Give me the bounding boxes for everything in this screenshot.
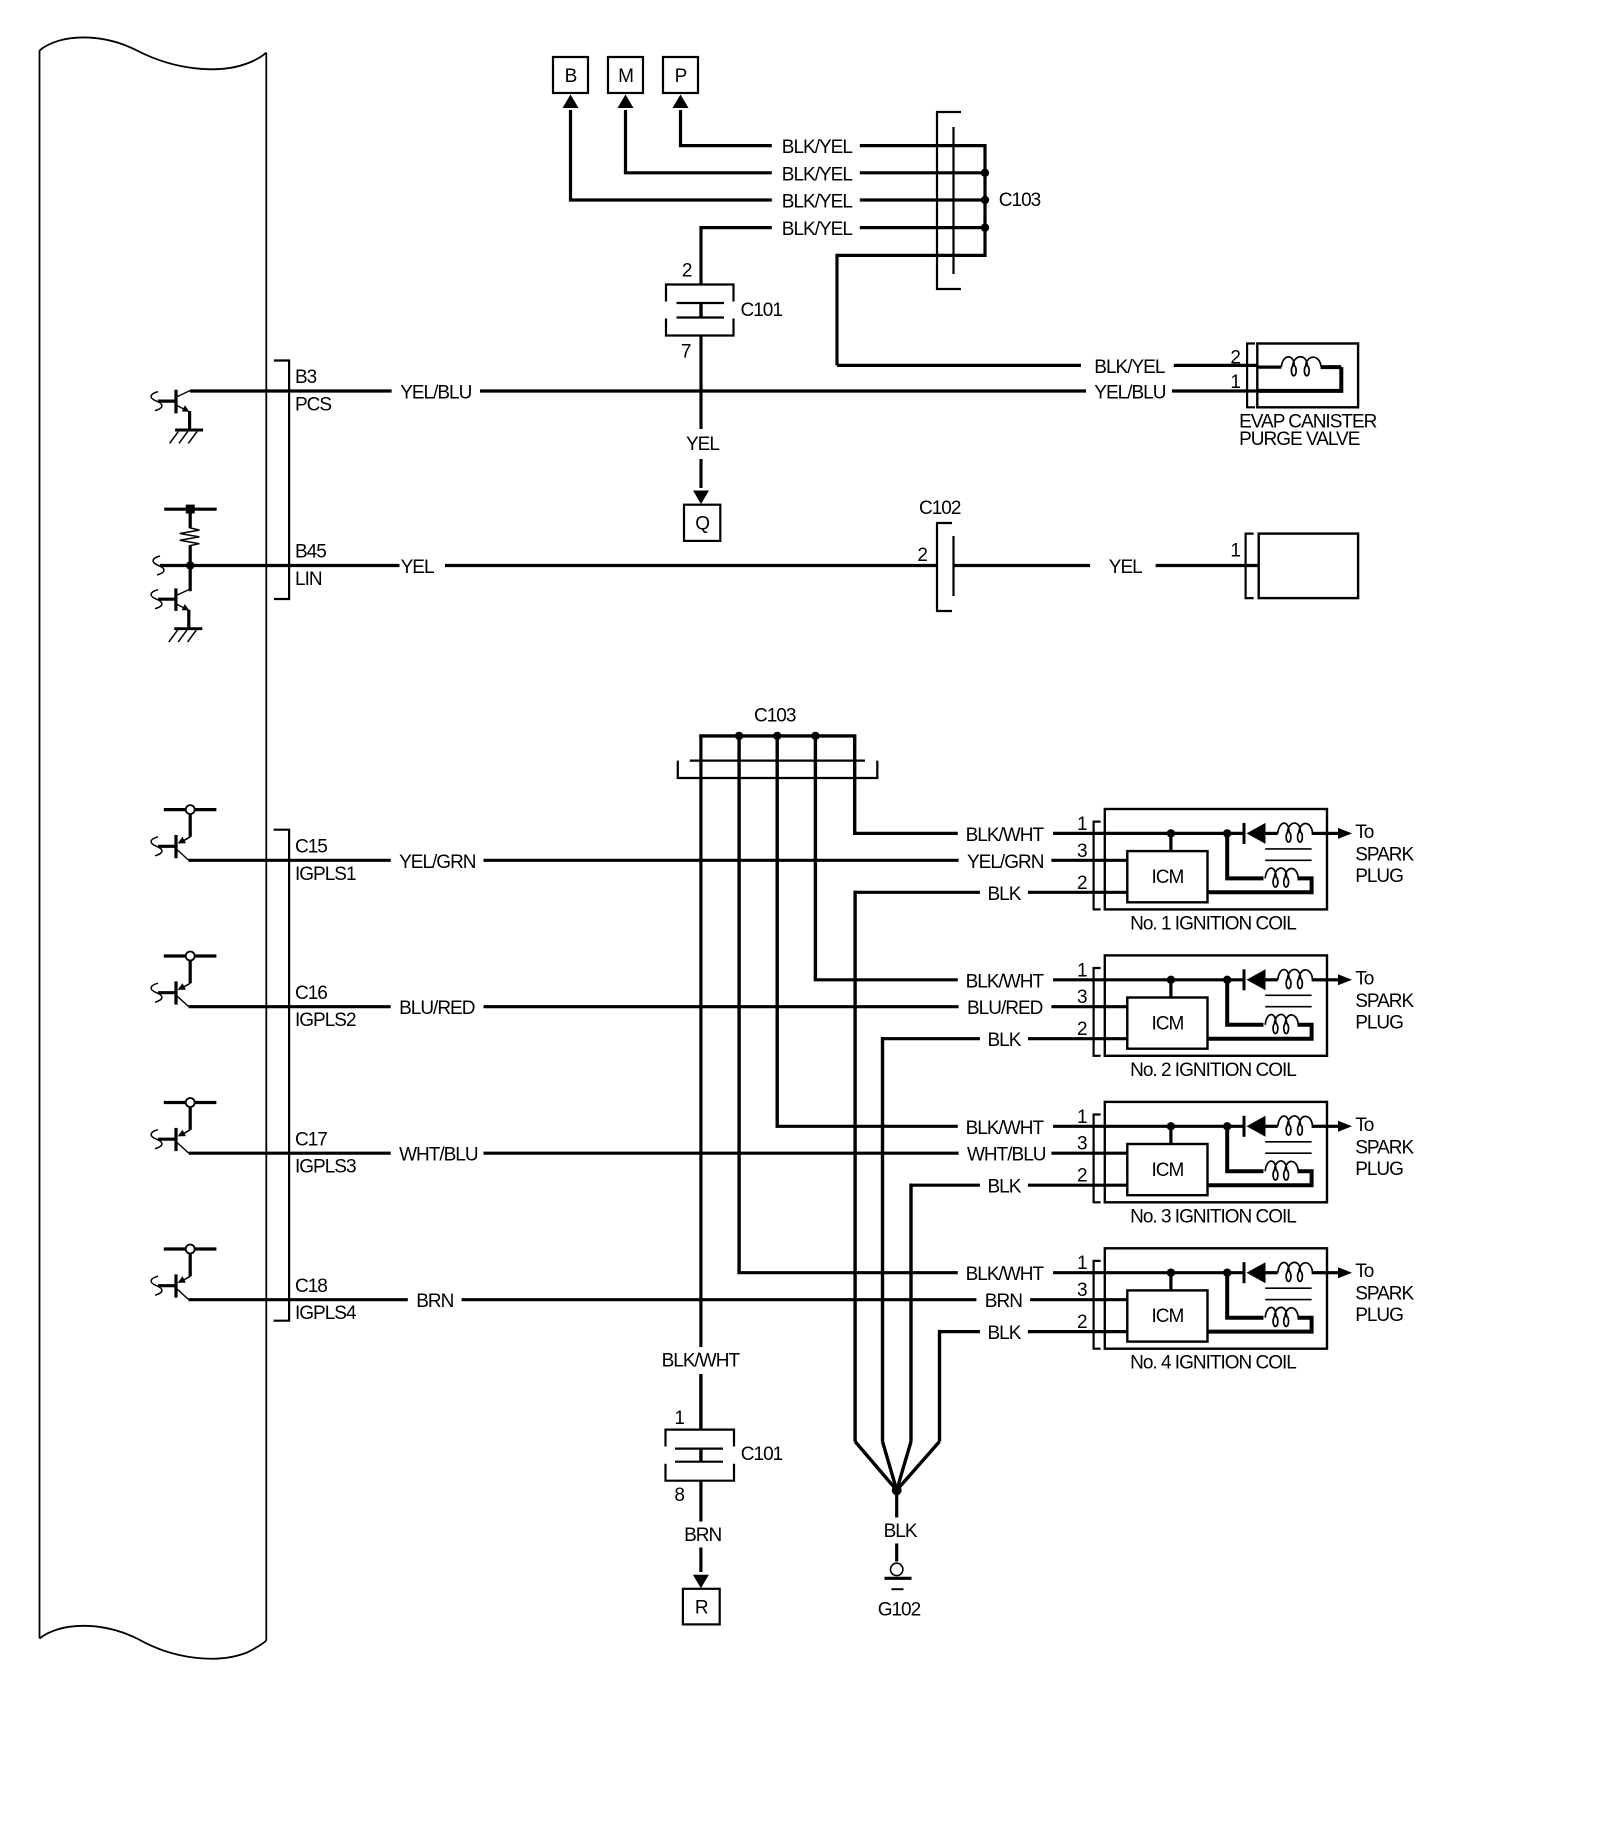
svg-text:YEL/GRN: YEL/GRN — [967, 852, 1044, 873]
svg-text:2: 2 — [682, 261, 692, 282]
label BRN (right) — [985, 1291, 1022, 1312]
svg-text:C103: C103 — [999, 190, 1041, 211]
label BLK/WHT coil 3 — [966, 1118, 1045, 1139]
pin number 1 coil 2 — [1077, 960, 1087, 981]
svg-text:C102: C102 — [919, 498, 961, 519]
label BLK coil 3 — [988, 1177, 1022, 1198]
svg-text:WHT/BLU: WHT/BLU — [399, 1145, 478, 1166]
pin label IGPLS1 — [295, 864, 356, 885]
pin number 3 coil 2 — [1077, 987, 1087, 1008]
wire BLK/YEL row 2 — [624, 171, 985, 174]
ICM box coil 2 — [1127, 998, 1207, 1049]
connector C101 (top) body — [666, 285, 734, 336]
transformer core coil 3 — [1265, 1142, 1311, 1153]
svg-text:1: 1 — [1077, 814, 1087, 835]
pin label LIN — [295, 569, 322, 590]
svg-text:R: R — [695, 1597, 708, 1618]
label BLK/WHT coil 4 — [966, 1264, 1045, 1285]
svg-text:SPARK: SPARK — [1355, 1284, 1414, 1305]
ignition coil 4 box — [1105, 1248, 1327, 1348]
pin label PCS — [295, 395, 331, 416]
ICM box coil 3 — [1127, 1144, 1207, 1195]
terminal box R — [683, 1589, 720, 1625]
svg-text:ICM: ICM — [1151, 1160, 1183, 1181]
svg-text:To: To — [1355, 822, 1374, 843]
pin label C15 — [295, 837, 327, 858]
svg-text:3: 3 — [1077, 1280, 1087, 1301]
ground symbol G102 — [885, 1563, 912, 1589]
ignition coil 2 box — [1105, 955, 1327, 1055]
pin number 2 coil 2 — [1077, 1019, 1087, 1040]
svg-text:1: 1 — [1230, 541, 1240, 562]
pin label IGPLS3 — [295, 1157, 356, 1178]
junction dot bus row 2 — [981, 169, 989, 177]
wire BLK coil 3 down to G102 — [897, 1184, 911, 1491]
svg-text:No. 3 IGNITION COIL: No. 3 IGNITION COIL — [1130, 1206, 1296, 1227]
label BLK coil 4 — [988, 1323, 1022, 1344]
spark plug output arrow coil 1 — [1327, 828, 1352, 839]
connector C103 (lower) outer bracket — [678, 761, 878, 778]
junction dot coil 2 pin1-ICM — [1167, 976, 1175, 998]
svg-text:PLUG: PLUG — [1355, 1012, 1403, 1033]
transformer core coil 1 — [1265, 849, 1311, 860]
svg-text:No. 4 IGNITION COIL: No. 4 IGNITION COIL — [1130, 1353, 1296, 1374]
svg-text:BLK: BLK — [988, 1177, 1022, 1198]
svg-text:BRN: BRN — [985, 1291, 1022, 1312]
label BLK/YEL row 2 — [782, 164, 853, 185]
ground (PCS emitter) — [170, 430, 204, 443]
svg-text:C17: C17 — [295, 1129, 327, 1150]
wire BLK/WHT into coil 3 pin 1 — [776, 1125, 1245, 1128]
svg-text:C15: C15 — [295, 837, 327, 858]
svg-text:B3: B3 — [295, 367, 317, 388]
pin number 3 coil 1 — [1077, 841, 1087, 862]
wire BLK coil 1 down to G102 — [855, 891, 897, 1491]
svg-text:BLK/YEL: BLK/YEL — [782, 219, 853, 240]
svg-text:BLK: BLK — [988, 1030, 1022, 1051]
pin 2 label C102 — [917, 545, 927, 566]
purge valve internal return wire — [1257, 367, 1341, 391]
transistor IGPLS3 driver — [151, 1098, 216, 1153]
svg-text:BRN: BRN — [416, 1291, 453, 1312]
svg-text:M: M — [618, 66, 633, 87]
svg-text:C18: C18 — [295, 1276, 327, 1297]
svg-text:BLU/RED: BLU/RED — [967, 998, 1043, 1019]
pin 1 label purge valve — [1230, 372, 1240, 393]
junction dot bus row 4 — [981, 223, 989, 231]
svg-text:LIN: LIN — [295, 569, 322, 590]
wire BRN from ECM C18 to ignition coil — [189, 1298, 1128, 1301]
connector bracket coil 1 — [1094, 822, 1101, 910]
connector C103 (top) inner contact line — [952, 127, 954, 274]
diode coil 1 — [1244, 823, 1266, 844]
svg-text:BLK/WHT: BLK/WHT — [966, 1264, 1045, 1285]
label YEL (to Q) — [686, 434, 719, 455]
label WHT/BLU (left) — [399, 1145, 478, 1166]
connector C102 — [937, 523, 954, 611]
wire BLK from coil 1 pin 2 — [855, 891, 1127, 894]
label BLK coil 2 — [988, 1030, 1022, 1051]
primary winding coil 1 — [1266, 823, 1328, 842]
wire YEL/BLU from ECM B3 to purge valve pin 1 — [190, 389, 1257, 392]
wire YEL from C101 pin 7 to Q — [693, 336, 709, 505]
svg-text:No. 1 IGNITION COIL: No. 1 IGNITION COIL — [1130, 913, 1296, 934]
pin label C17 — [295, 1129, 327, 1150]
svg-text:8: 8 — [674, 1485, 684, 1506]
wire BLK coil 4 down to G102 — [897, 1330, 940, 1490]
connector C103 (top) outer bracket — [937, 112, 961, 289]
transistor IGPLS2 driver — [151, 952, 216, 1007]
terminal box M — [608, 57, 643, 93]
svg-text:IGPLS4: IGPLS4 — [295, 1303, 357, 1324]
wire BLK to ground G102 — [895, 1490, 898, 1561]
pin 7 label C101 (top) — [681, 342, 691, 363]
transistor IGPLS1 driver — [151, 805, 216, 860]
svg-text:YEL: YEL — [686, 434, 719, 455]
wire from terminal P with up arrow — [673, 95, 689, 146]
pin 8 label C101 (bottom) — [674, 1485, 684, 1506]
label BLK/WHT coil 2 — [966, 971, 1045, 992]
resistor (B45 pull-up) — [180, 514, 200, 592]
transistor LIN driver — [151, 588, 190, 628]
ICM box coil 1 — [1127, 851, 1207, 902]
svg-text:BRN: BRN — [684, 1525, 721, 1546]
svg-text:BLK: BLK — [884, 1521, 918, 1542]
pin label IGPLS2 — [295, 1010, 356, 1031]
diode coil 2 — [1244, 969, 1266, 990]
label C101 (top) — [741, 300, 783, 321]
svg-text:IGPLS1: IGPLS1 — [295, 864, 356, 885]
junction dot C103 bus x=777.2 — [773, 732, 781, 740]
ignition coil 1 box — [1105, 809, 1327, 909]
wire BLK from coil 2 pin 2 — [883, 1037, 1128, 1040]
pin number 2 coil 4 — [1077, 1312, 1087, 1333]
label WHT/BLU (right) — [967, 1145, 1046, 1166]
transistor IGPLS4 driver — [151, 1245, 216, 1300]
svg-text:SPARK: SPARK — [1355, 991, 1414, 1012]
svg-text:IGPLS2: IGPLS2 — [295, 1010, 356, 1031]
pin label C18 — [295, 1276, 327, 1297]
svg-text:IGPLS3: IGPLS3 — [295, 1157, 356, 1178]
svg-text:2: 2 — [1077, 1166, 1087, 1187]
primary winding coil 2 — [1266, 969, 1328, 988]
connector bracket coil 2 — [1094, 968, 1101, 1056]
svg-text:C16: C16 — [295, 983, 327, 1004]
svg-text:1: 1 — [674, 1408, 684, 1429]
svg-text:B45: B45 — [295, 542, 326, 563]
primary winding coil 3 — [1266, 1116, 1328, 1135]
label C102 — [919, 498, 961, 519]
label YEL/BLU (right) — [1094, 383, 1165, 404]
connector bracket coil 4 — [1094, 1261, 1101, 1349]
secondary return wire coil 2 — [1208, 1025, 1312, 1039]
svg-text:YEL/BLU: YEL/BLU — [400, 383, 471, 404]
pin 1 label of right component — [1230, 541, 1240, 562]
ground (LIN emitter) — [169, 629, 203, 642]
connector bracket purge valve — [1247, 344, 1255, 408]
svg-text:ICM: ICM — [1151, 1013, 1183, 1034]
svg-text:No. 2 IGNITION COIL: No. 2 IGNITION COIL — [1130, 1060, 1296, 1081]
label No. 3 IGNITION COIL — [1130, 1206, 1296, 1227]
pin number 3 coil 3 — [1077, 1134, 1087, 1155]
svg-text:C101: C101 — [741, 300, 783, 321]
EVAP canister purge valve box — [1257, 344, 1358, 408]
junction dot C103 bus x=739.1 — [735, 732, 743, 740]
label To SPARK PLUG coil 1 — [1355, 822, 1414, 887]
wire row4 down to C101 pin 2 — [699, 228, 702, 285]
pin number 1 coil 3 — [1077, 1107, 1087, 1128]
spark plug output arrow coil 2 — [1327, 974, 1352, 985]
svg-text:1: 1 — [1077, 1253, 1087, 1274]
primary winding coil 4 — [1266, 1262, 1328, 1281]
ECM connector bracket B3/B45 — [274, 361, 289, 600]
pin label B3 — [295, 367, 317, 388]
svg-text:YEL: YEL — [401, 557, 434, 578]
diode coil 4 — [1244, 1262, 1266, 1283]
ICM box coil 4 — [1127, 1290, 1207, 1341]
junction dot coil 3 pin1-ICM — [1167, 1122, 1175, 1144]
diode coil 3 — [1244, 1116, 1266, 1137]
terminal box Q — [684, 505, 720, 541]
svg-text:YEL: YEL — [1109, 557, 1142, 578]
label BLK/YEL row 4 — [782, 219, 853, 240]
wire BLK coil 2 down to G102 — [883, 1037, 897, 1490]
right component box — [1259, 534, 1358, 599]
label BLK (ground wire) — [884, 1521, 918, 1542]
ECM body right edge — [265, 53, 267, 1641]
svg-text:BLK/WHT: BLK/WHT — [662, 1350, 741, 1371]
label G102 — [878, 1600, 921, 1621]
bus wire above C103 (lower) — [699, 734, 856, 737]
label No. 1 IGNITION COIL — [1130, 913, 1296, 934]
svg-text:C103: C103 — [754, 706, 796, 727]
terminal box P — [663, 57, 698, 93]
svg-text:To: To — [1355, 1261, 1374, 1282]
svg-text:1: 1 — [1077, 1107, 1087, 1128]
label C103 (top) — [999, 190, 1041, 211]
label No. 4 IGNITION COIL — [1130, 1353, 1296, 1374]
wire BLK/YEL row 1 — [679, 144, 985, 147]
svg-text:BLK/YEL: BLK/YEL — [782, 192, 853, 213]
label To SPARK PLUG coil 2 — [1355, 968, 1414, 1033]
pin number 1 coil 1 — [1077, 814, 1087, 835]
label BRN (to R) — [684, 1525, 721, 1546]
label YEL/GRN (left) — [399, 852, 476, 873]
ignition coil 3 box — [1105, 1102, 1327, 1202]
label YEL (left) — [401, 557, 434, 578]
internal pull-up terminal (B45) — [164, 505, 217, 514]
svg-text:2: 2 — [917, 545, 927, 566]
pin number 1 coil 4 — [1077, 1253, 1087, 1274]
junction dot coil 4 pin1-secondary — [1223, 1269, 1264, 1318]
bus wire right of C103 (top) — [983, 144, 986, 257]
transformer core coil 2 — [1265, 995, 1311, 1006]
secondary winding coil 2 — [1265, 1014, 1298, 1033]
label YEL (right) — [1109, 557, 1142, 578]
svg-text:BLK: BLK — [988, 1323, 1022, 1344]
ECM body torn bottom edge — [40, 1626, 267, 1659]
svg-text:1: 1 — [1230, 372, 1240, 393]
wire BLK/YEL row 4 — [699, 226, 985, 229]
svg-text:1: 1 — [1077, 960, 1087, 981]
svg-text:YEL/BLU: YEL/BLU — [1094, 383, 1165, 404]
label BLU/RED (right) — [967, 998, 1043, 1019]
svg-text:B: B — [565, 66, 577, 87]
wire BLK/WHT into coil 1 pin 1 — [853, 832, 1244, 835]
connector bracket of right component — [1246, 534, 1254, 599]
svg-text:SPARK: SPARK — [1355, 844, 1414, 865]
secondary return wire coil 3 — [1208, 1171, 1312, 1185]
wire WHT/BLU from ECM C17 to ignition coil — [189, 1152, 1128, 1155]
wire BLK from coil 3 pin 2 — [911, 1184, 1127, 1187]
svg-text:PCS: PCS — [295, 395, 331, 416]
wire YEL from C102 to component — [954, 564, 1259, 567]
purge valve solenoid coil — [1257, 357, 1341, 376]
label To SPARK PLUG coil 4 — [1355, 1261, 1414, 1326]
wire from terminal M with up arrow — [618, 95, 634, 173]
secondary winding coil 1 — [1265, 868, 1298, 887]
svg-text:BLK/YEL: BLK/YEL — [1094, 357, 1165, 378]
label BLK/YEL (purge valve wire) — [1094, 357, 1165, 378]
svg-text:G102: G102 — [878, 1600, 921, 1621]
svg-text:YEL/GRN: YEL/GRN — [399, 852, 476, 873]
label C103 (lower) — [754, 706, 796, 727]
svg-text:BLK: BLK — [988, 884, 1022, 905]
terminal box B — [553, 57, 588, 93]
wire BLK/WHT leg to coil 4 — [737, 736, 740, 1273]
junction dot B45 node — [186, 561, 194, 569]
secondary return wire coil 1 — [1208, 878, 1312, 892]
wire BLK/WHT leg to C101 (x=701) — [699, 736, 702, 1430]
wire BLK/WHT leg to coil 2 — [814, 736, 817, 980]
pin number 2 coil 1 — [1077, 873, 1087, 894]
secondary winding coil 3 — [1265, 1161, 1298, 1180]
label BLK coil 1 — [988, 884, 1022, 905]
wire BRN from C101 pin 8 to R — [693, 1481, 709, 1589]
junction dot coil 1 pin1-secondary — [1223, 829, 1264, 878]
wire BLK/WHT into coil 4 pin 1 — [737, 1271, 1244, 1274]
svg-text:2: 2 — [1077, 1312, 1087, 1333]
junction dot coil 3 pin1-secondary — [1223, 1122, 1264, 1171]
junction dot bus row 3 — [981, 196, 989, 204]
svg-text:To: To — [1355, 1115, 1374, 1136]
label YEL/GRN (right) — [967, 852, 1044, 873]
wire YEL from ECM B45 to C102 — [153, 556, 936, 575]
svg-text:C101: C101 — [741, 1444, 783, 1465]
transformer core coil 4 — [1265, 1288, 1311, 1299]
ECM body left edge — [39, 51, 41, 1639]
svg-text:7: 7 — [681, 342, 691, 363]
svg-text:BLK/WHT: BLK/WHT — [966, 825, 1045, 846]
svg-text:PLUG: PLUG — [1355, 866, 1403, 887]
wire BLK/WHT leg to coil 3 — [776, 736, 779, 1126]
wire BLK/WHT into coil 2 pin 1 — [814, 978, 1244, 981]
svg-text:WHT/BLU: WHT/BLU — [967, 1145, 1046, 1166]
pin label IGPLS4 — [295, 1303, 357, 1324]
junction dot coil 4 pin1-ICM — [1167, 1269, 1175, 1291]
label BLK/YEL row 3 — [782, 192, 853, 213]
svg-text:PLUG: PLUG — [1355, 1159, 1403, 1180]
label BLK/WHT (above C101) — [662, 1350, 741, 1371]
svg-text:ICM: ICM — [1151, 1306, 1183, 1327]
junction dot coil 1 pin1-ICM — [1167, 829, 1175, 851]
svg-text:Q: Q — [695, 514, 709, 535]
svg-text:P: P — [675, 66, 687, 87]
ECM connector bracket C15-C18 — [274, 830, 290, 1321]
wire BLU/RED from ECM C16 to ignition coil — [189, 1005, 1128, 1008]
label To SPARK PLUG coil 3 — [1355, 1115, 1414, 1180]
svg-text:2: 2 — [1230, 348, 1240, 369]
svg-text:BLU/RED: BLU/RED — [399, 998, 475, 1019]
secondary winding coil 4 — [1265, 1307, 1298, 1326]
svg-text:BLK/WHT: BLK/WHT — [966, 971, 1045, 992]
pin number 3 coil 4 — [1077, 1280, 1087, 1301]
junction dot C103 bus x=815.4 — [811, 732, 819, 740]
label BRN (left) — [416, 1291, 453, 1312]
pin label C16 — [295, 983, 327, 1004]
svg-text:PLUG: PLUG — [1355, 1305, 1403, 1326]
pin 2 label C101 (top) — [682, 261, 692, 282]
label YEL/BLU (left) — [400, 383, 471, 404]
junction dot G102 node — [892, 1485, 902, 1495]
label BLK/WHT coil 1 — [966, 825, 1045, 846]
ECM body torn top edge — [40, 37, 267, 69]
connector C101 (bottom) body — [666, 1430, 735, 1481]
label No. 2 IGNITION COIL — [1130, 1060, 1296, 1081]
svg-text:3: 3 — [1077, 1134, 1087, 1155]
svg-text:BLK/WHT: BLK/WHT — [966, 1118, 1045, 1139]
label C101 (bottom) — [741, 1444, 783, 1465]
wire BLK from coil 4 pin 2 — [940, 1330, 1128, 1333]
svg-text:PURGE VALVE: PURGE VALVE — [1239, 429, 1360, 450]
svg-text:3: 3 — [1077, 987, 1087, 1008]
wire from terminal B with up arrow — [563, 95, 579, 201]
transistor PCS driver — [151, 390, 190, 430]
svg-text:SPARK: SPARK — [1355, 1137, 1414, 1158]
secondary return wire coil 4 — [1208, 1318, 1312, 1332]
junction dot coil 2 pin1-secondary — [1223, 976, 1264, 1025]
label BLK/YEL row 1 — [782, 137, 853, 158]
connector C103 (lower) inner contact line — [690, 759, 865, 761]
pin number 2 coil 3 — [1077, 1166, 1087, 1187]
pin 1 label C101 (bottom) — [674, 1408, 684, 1429]
svg-text:BLK/YEL: BLK/YEL — [782, 164, 853, 185]
wire BLK/YEL to purge valve (row 5, down and right) — [837, 254, 1257, 366]
svg-text:To: To — [1355, 968, 1374, 989]
spark plug output arrow coil 4 — [1327, 1267, 1352, 1278]
svg-text:2: 2 — [1077, 1019, 1087, 1040]
wire YEL/GRN from ECM C15 to ignition coil — [189, 859, 1128, 862]
svg-text:3: 3 — [1077, 841, 1087, 862]
connector bracket coil 3 — [1094, 1115, 1101, 1203]
svg-text:ICM: ICM — [1151, 867, 1183, 888]
label EVAP CANISTER PURGE VALVE — [1239, 412, 1377, 451]
pin 2 label purge valve — [1230, 348, 1240, 369]
wire BLK/YEL row 3 — [569, 198, 985, 201]
svg-text:2: 2 — [1077, 873, 1087, 894]
label BLU/RED (left) — [399, 998, 475, 1019]
wire BLK/WHT leg to coil 1 — [853, 736, 856, 834]
pin label B45 — [295, 542, 326, 563]
svg-text:BLK/YEL: BLK/YEL — [782, 137, 853, 158]
spark plug output arrow coil 3 — [1327, 1121, 1352, 1132]
